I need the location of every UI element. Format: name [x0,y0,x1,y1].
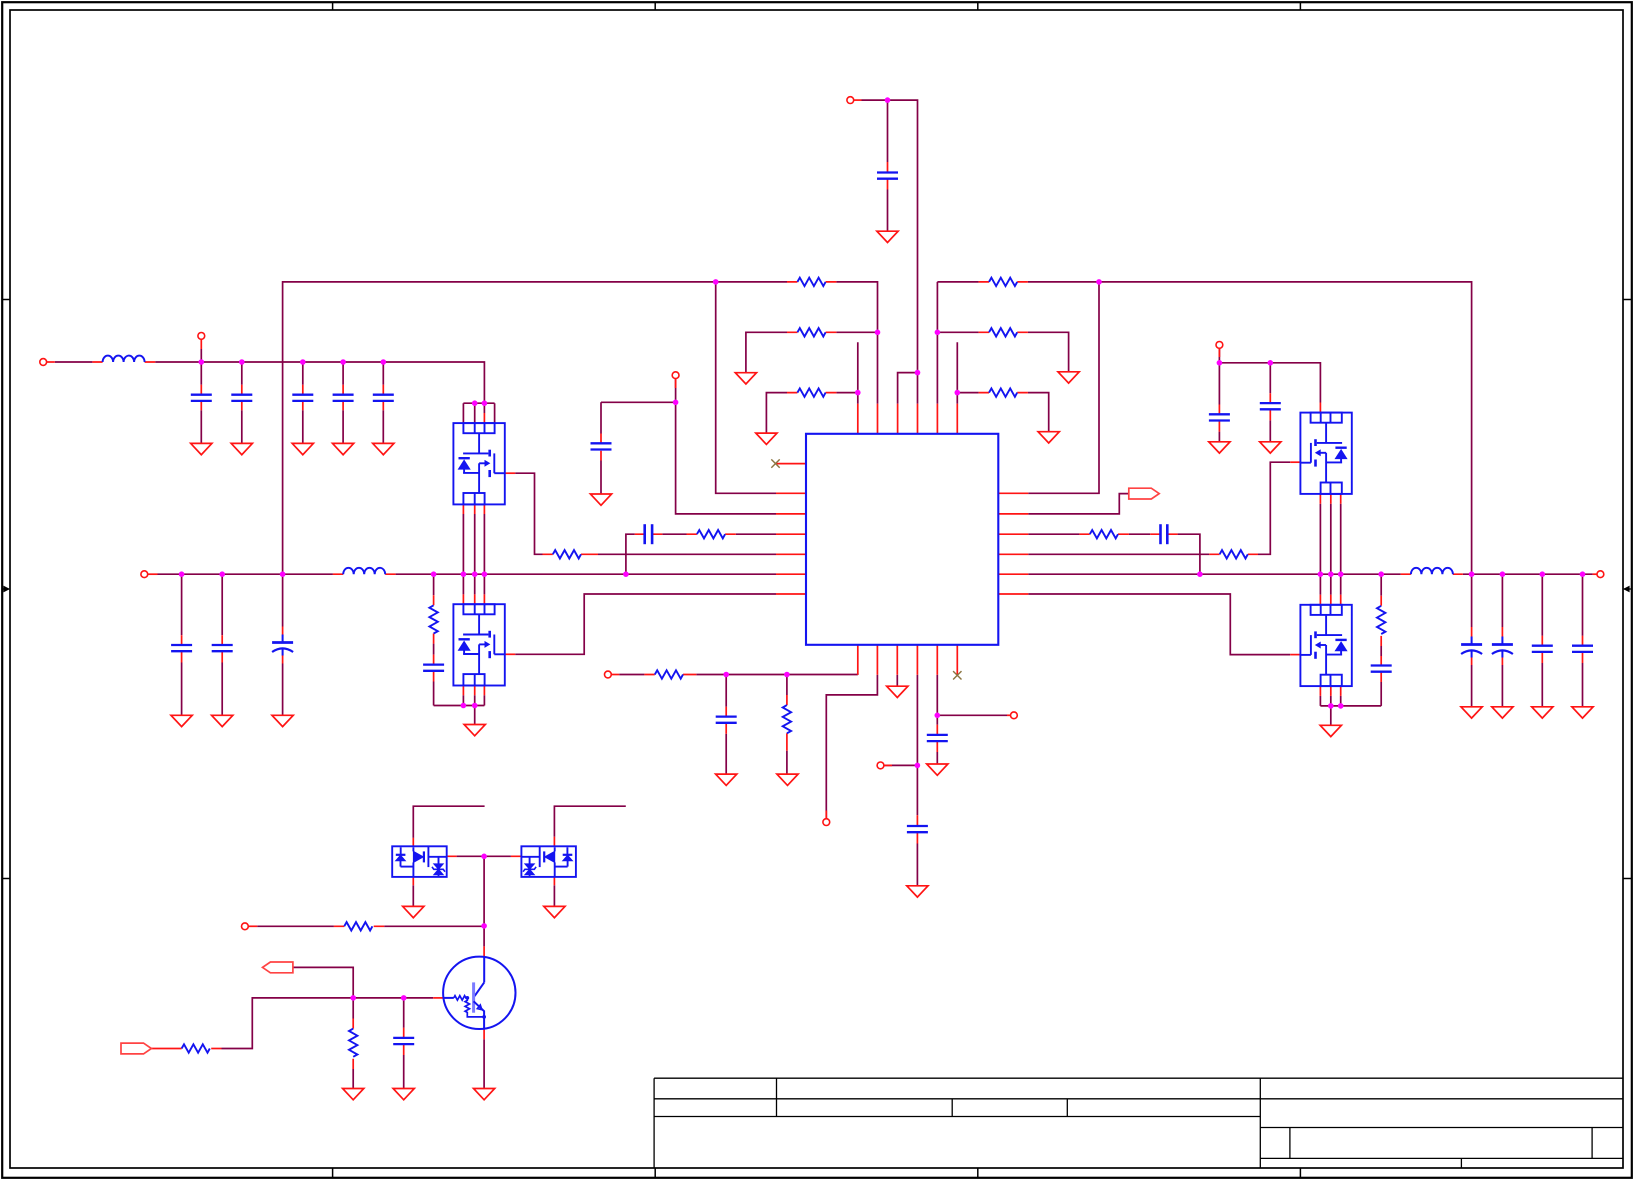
wire C-o3 lead upper [1541,574,1543,636]
ground sym TVS1 [403,906,424,917]
resistor R-fbase stub right [211,1048,221,1050]
wire C-out3L polarized lead lower to ground [282,664,284,716]
junction right bus C-o1 [1469,571,1475,577]
inductor L3 stubs [1401,573,1463,575]
junction SS port branch [673,400,679,406]
ground sym C-in6 [1209,442,1230,453]
border zone tick bottom 2 [654,1168,656,1178]
wire C-in2 leads [241,362,243,443]
capacitor C-vref [907,826,928,832]
capacitor C-vcc [877,173,898,179]
junction left bus at tie rail [280,571,286,577]
inductor L1 [103,356,145,362]
resistor R-fb3L stubs [787,392,836,394]
port ILIM stub [825,811,827,819]
port VIN2 stub [1218,348,1220,357]
capacitor C-en stubs [936,725,938,752]
resistor R-g2 stubs [1209,553,1258,555]
TVS2 pin stubs [511,837,555,886]
capacitor C-snub2 stubs [1380,656,1382,682]
no-connect X on U1 bottom pin [953,671,961,679]
wire TVS2 net stub [554,806,625,837]
title block rev cell divider [1591,1128,1593,1159]
capacitor C-comp stubs [635,533,663,535]
resistor R-rt2 stubs [786,695,788,751]
wire PGOOD to flag [1028,494,1129,514]
capacitor C-comp (series) [645,524,652,544]
wire C-snub2 lower lead [1380,682,1382,706]
ground sym C-base [393,1089,414,1100]
port VIN2 [1216,342,1223,349]
no-connect X on U1 left pin 1 [771,459,779,467]
capacitor C-in6 [1209,414,1230,420]
transistor FET-LL low side left phase [453,604,504,685]
ground sym C-o1 [1461,707,1482,718]
wire UGATE1 from FET-UL to IC [515,473,542,554]
junction RT net R-rt2 [784,672,790,678]
wire vref node vertical [916,675,918,816]
port VOUT-R [1597,571,1604,578]
flag F1 input [121,1043,151,1054]
wire IC agnd pin lead [896,675,898,686]
junction right bus FET stub a [1318,571,1324,577]
wire VCC port net vertical to IC [862,100,918,404]
port RT [605,671,612,678]
capacitor C-out3L stubs [282,627,284,664]
wire IC pin to bottom port (ilim) [826,675,877,819]
resistor R-comp [697,530,725,538]
wire C-out2L lead upper [221,574,223,635]
junction right bus FET stub c [1338,571,1344,577]
ground sym left FET rail [464,725,485,736]
inductor L3 [1411,568,1453,574]
capacitor C-vref stubs [916,815,918,843]
border zone tick top 4 [1299,2,1301,10]
capacitor C-in4 [333,395,354,401]
capacitor C-out2L [212,645,233,651]
title block divider column B [951,1099,953,1117]
junction VIN2 C-in7 [1268,360,1274,366]
capacitor C-base stubs [403,1028,405,1055]
port EN [1011,712,1018,719]
capacitor C-in5 [373,395,394,401]
junction FET-UL connector b [472,400,478,406]
border zone tick bottom 1 [332,1168,334,1178]
IC U1 bottom pin stubs [858,645,958,675]
flag F2 gate drive [263,962,293,973]
transistor Q1 base stub [433,997,443,999]
resistor R-fb2R [989,328,1017,336]
wire R-fb2R left leg [937,331,978,333]
wire en node branch [937,675,1007,725]
wire C-vref lower lead to ground [916,844,918,886]
ground sym C-in7 [1260,442,1281,453]
ground sym C-ss [590,494,611,505]
resistor R-fb1R stubs [979,281,1028,283]
wire C-vcc lower lead to ground [887,190,889,232]
capacitor C-out3L polarized [272,635,293,656]
capacitor C-in6 stubs [1218,405,1220,432]
port VCC stub [854,99,862,101]
transistor FET-UL high side left phase [453,423,504,504]
wire FET-LL source stubs to gnd rail [463,695,484,705]
diode module TVS2 [521,846,576,877]
port VOUT-R stub [1593,573,1597,575]
resistor R-base stubs [352,1019,354,1070]
junction VIN bus C-in3 [300,359,306,365]
FET-UR source stubs red [1320,494,1340,504]
junction left bus FET stub b [472,571,478,577]
resistor R-snub1 stubs [433,595,435,643]
wire R-col port net [257,925,484,927]
border center arrow left [2,586,10,593]
wire C-o4 lead lower to ground [1582,663,1584,707]
capacitor C-en [927,735,948,741]
border zone tick bottom 4 [1299,1168,1301,1178]
junction left gnd rail a [461,703,467,709]
junction FET-UL connector c [482,400,488,406]
border zone tick left 2 [2,878,10,880]
junction right bus comp2 branch [1197,571,1203,577]
junction RT net C-rt [723,672,729,678]
flag PGOOD [1129,488,1159,499]
title block outline left section [654,1078,1623,1168]
port ILIM bottom [823,819,830,826]
ground sym C-rt [716,774,737,785]
wire C-snub1 lower lead [433,682,435,706]
port EN stub [1007,714,1010,716]
border zone tick top 3 [977,2,979,10]
junction left bus FET stub a [461,571,467,577]
resistor R-fb1R [989,278,1017,286]
junction VIN2 C-in6 [1217,360,1223,366]
wire C-base lower lead to ground [403,1055,405,1089]
junction top rail FB left [713,279,719,285]
wire vref port branch [884,764,917,766]
capacitor C-in3 [292,395,313,401]
wire C-out1L lead lower to ground [181,663,183,716]
junction ladder left row2 [875,330,881,336]
resistor R-comp2 stubs [1079,533,1129,535]
junction base node R-base [350,995,356,1001]
wire LGATE2 from IC to FET-LR [1028,594,1290,655]
wire C-o4 lead upper [1582,574,1584,636]
wire R-fb2L right leg [836,331,877,333]
port VIN1 stub [47,361,55,363]
junction VIN bus C-in1 [199,359,205,365]
junction left bus comp branch [623,571,629,577]
wire C-o1 lead lower to ground [1471,665,1473,707]
ground sym TVS2 [544,906,565,917]
wire comp RC branch to left bus [626,534,635,574]
junction left gnd rail b [472,703,478,709]
wire TVS junction to transistor collector [457,856,511,946]
wire R-fb2R right leg to ground [1028,332,1069,372]
wire SS port branch to IC pin [676,379,776,514]
wire UGATE2 from IC to FET-UR [1028,462,1290,554]
capacitor C-o3 [1532,646,1553,652]
capacitor C-out2L stubs [221,635,223,662]
border center arrow right [1623,586,1632,593]
capacitor C-in7 stubs [1269,393,1271,420]
wire C-rt leads [725,675,727,775]
ground sym C-in3 [292,443,313,454]
wire R-base lower lead to ground [352,998,354,1089]
FET-UL gate stub [505,472,515,474]
ground sym C-en [927,764,948,775]
junction left bus FET stub c [482,571,488,577]
capacitor C-in1..5 stubs [201,385,383,411]
transistor FET-UR high side right phase [1300,413,1351,494]
ground sym R-rt2 [777,774,798,785]
FET-LL gate stub [505,653,515,655]
ground sym R-fb3L [756,433,777,444]
capacitor C-o2 polarized [1492,637,1513,658]
wire R-comp to IC pin [736,533,776,535]
capacitor C-comp2 stubs [1150,533,1177,535]
wire left output bus [158,573,777,575]
junction collector node [481,923,487,929]
diode module TVS1 [392,846,447,877]
wire VIN port2 drop [200,349,202,362]
junction base node C-base [401,995,407,1001]
junction VIN bus C-in2 [239,359,245,365]
wire VIN bus upper [55,362,485,403]
junction ladder right row2 [935,330,941,336]
ground sym C-vref [907,886,928,897]
resistor R-fb1L [797,278,825,286]
title block sheet cell divider [1460,1158,1462,1168]
capacitor C-base [393,1038,414,1044]
wire between C-comp and R-comp left [662,533,686,535]
FET-LL drain stubs red [463,594,484,604]
resistor R-fb3R [989,388,1017,396]
junction right bus C-o4 [1580,571,1586,577]
title block right section frame [1260,1078,1623,1168]
wire R-snub2 to C-snub2 [1380,646,1382,656]
ground sym C-in4 [333,443,354,454]
IC U1 right pin stubs [998,493,1028,594]
wire IC pin jog to VCC vertical [898,373,918,404]
junction right bus C-o2 [1500,571,1506,577]
inductor L2 [343,568,385,574]
capacitor C-out1L [171,645,192,651]
wire TVS2 ground lead [553,885,555,906]
wire C-in7 leads [1269,363,1271,442]
inductor L1 stubs [92,361,155,363]
capacitor C-o2 stubs [1501,627,1503,665]
transistor Q1 emitter stub [483,1029,485,1039]
ground sym R-fb3R [1038,432,1059,443]
wire phase bus to FET-LR drain stubs [1320,574,1340,595]
capacitor C-o1 stubs [1471,627,1473,665]
border zone tick right 1 [1623,299,1632,301]
junction right bus FET stub b [1328,571,1334,577]
capacitor C-o1 polarized [1461,637,1482,658]
flag F1 wire red [152,1048,182,1050]
ground sym C-out3L [272,715,293,726]
capacitor C-out1L stubs [181,635,183,662]
junction right bus C-o3 [1540,571,1546,577]
border zone tick top 1 [332,2,334,10]
resistor R-fb2L [797,328,825,336]
port RT stub [611,674,619,676]
ground sym IC agnd [887,686,908,697]
wire base drive net [222,998,434,1049]
ground sym R-base [343,1089,364,1100]
capacitor C-in7 [1260,403,1281,409]
resistor R-col [344,922,372,930]
resistor R-fb2L stubs [787,331,836,333]
capacitor C-rt stubs [725,707,727,734]
port VOUT-L stub [148,573,158,575]
capacitor C-in2 [231,395,252,401]
ground sym C-in2 [231,443,252,454]
resistor R-snub2 [1377,606,1385,634]
resistor R-fb3L [797,388,825,396]
wire R-fb3L left leg to ground [766,393,787,434]
capacitor C-o4 stubs [1582,636,1584,663]
ground sym C-out2L [212,715,233,726]
transistor Q1 collector stub [483,946,485,956]
wire TVS1 ground lead [412,885,414,906]
FET-LR source stubs red [1320,686,1340,696]
title block divider column C [1066,1099,1068,1117]
wire C-ss branch [601,402,676,433]
wire top rail right of R-fb1L into ladder corner [836,282,877,404]
wire IC EN2 pin to right rail vertical [1028,282,1099,493]
capacitor C-rt [716,717,737,723]
ground sym C-in1 [191,443,212,454]
wire left FET ground rail [434,706,485,725]
IC U1 left pin stubs [776,464,806,594]
wire C-o1 lead upper [1471,574,1473,627]
wire R-fb3R right leg to ground [1028,393,1049,432]
junction TVS mid node [481,854,487,860]
wire R-fb2L left leg to ground [746,332,787,372]
resistor R-rt1 stubs [644,674,696,676]
port VREF stub [884,764,892,766]
capacitor C-vcc stubs [887,162,889,190]
wire FB node vertical to IC pin EN1 [716,282,776,493]
port VIN2a [198,333,205,340]
port VCC [847,97,854,104]
port VREF [877,762,884,769]
resistor R-comp stubs [687,533,736,535]
wire VIN2 port net to FET-UR drain [1219,348,1320,402]
resistor R-fb1L stubs [787,281,836,283]
FET-LR drain stubs red [1320,595,1340,605]
IC U1 top pin stubs [858,404,958,434]
capacitor C-in1 [191,395,212,401]
wire C-en lower lead to ground [936,752,938,764]
wire TVS1 net stub [413,806,484,838]
wire FET-LR source stubs to gnd rail [1320,696,1340,706]
ground sym R-fb2R [1058,372,1079,383]
port VIN2a stub [200,339,202,349]
wire emitter to ground [483,1039,485,1088]
border zone tick right 2 [1623,878,1632,880]
FET-UL drain feed stub [483,413,485,423]
wire VOUT tie rail left segment (top rail to left bus) [283,282,787,574]
resistor R-col stubs [334,925,384,927]
ground sym Q1 emitter [474,1089,495,1100]
junction VIN bus C-in5 [381,359,387,365]
wire FET-UL drain connector [463,403,494,423]
FET-UR drain feed stub [1319,403,1321,413]
FET-UR gate stub [1290,461,1300,463]
FET-UL source stubs red [463,504,484,514]
junction VCC cap tap [885,97,891,103]
capacitor C-ss [591,443,612,449]
wire R-snub2 top lead [1380,574,1382,596]
transistor FET-LR low side right phase [1300,605,1351,686]
wire C-ss lower lead to ground [600,461,602,495]
border zone tick top 2 [654,2,656,10]
wire C-in3 leads [302,362,304,443]
ground sym R-fb2L [735,373,756,384]
junction VREF node [915,763,921,769]
wire R-fb3L right leg to IC pin [836,342,857,404]
port VOUT-L [141,571,148,578]
wire C-out2L lead lower to ground [221,663,223,716]
junction EN node [935,713,941,719]
wire top rail right segment (ladder to output bus) [937,282,1471,574]
wire C-out1L lead upper [181,574,183,635]
resistor R-g1 [553,550,581,558]
wire flag2 to base node [293,967,353,998]
ground sym C-o4 [1572,707,1593,718]
wire comp2 RC from IC [1028,534,1200,574]
wire C-vcc upper lead [887,100,889,162]
junction ladder right row3 [955,390,961,396]
wire R-rt leads [786,675,788,775]
junction left bus at C-out2L [219,571,225,577]
ground sym C-out1L [171,715,192,726]
TVS1 pin stubs [413,838,456,885]
wire C-o2 lead lower to ground [1501,665,1503,707]
capacitor C-comp2 (series) [1161,524,1168,544]
border zone tick left 1 [2,299,10,301]
ground sym C-o2 [1492,707,1513,718]
capacitor C-snub1 stubs [433,655,435,682]
IC U1 controller [806,434,998,645]
junction right bus R-snub2 [1378,571,1384,577]
wire LGATE1 from IC to FET-LL [515,594,776,654]
junction right gnd rail a [1328,703,1334,709]
junction left bus at C-out1L [179,571,185,577]
capacitor C-o3 stubs [1541,636,1543,663]
resistor R-snub2 stubs [1380,596,1382,646]
port RCOL [242,923,249,930]
inductor L2 stubs [333,573,396,575]
wire R-g1 to IC pin [598,553,776,555]
wire C-o2 lead upper [1501,574,1503,627]
wire C-in6 leads [1218,363,1220,442]
wire phase bus to FET-LL drain stubs [463,574,484,594]
wire RT/SYNC port net bottom [619,674,858,676]
title block size cell divider [1289,1128,1291,1159]
wire right output bus [1028,573,1592,575]
capacitor C-o4 [1572,646,1593,652]
port SS stub [675,379,677,388]
FET-LL source stubs red [463,686,484,696]
port SS [672,372,679,379]
wire FET-UL source stubs to phase bus [463,514,484,574]
wire C-in5 leads [382,362,384,443]
junction ladder left row3 [855,390,861,396]
resistor R-fb2R stubs [979,331,1028,333]
